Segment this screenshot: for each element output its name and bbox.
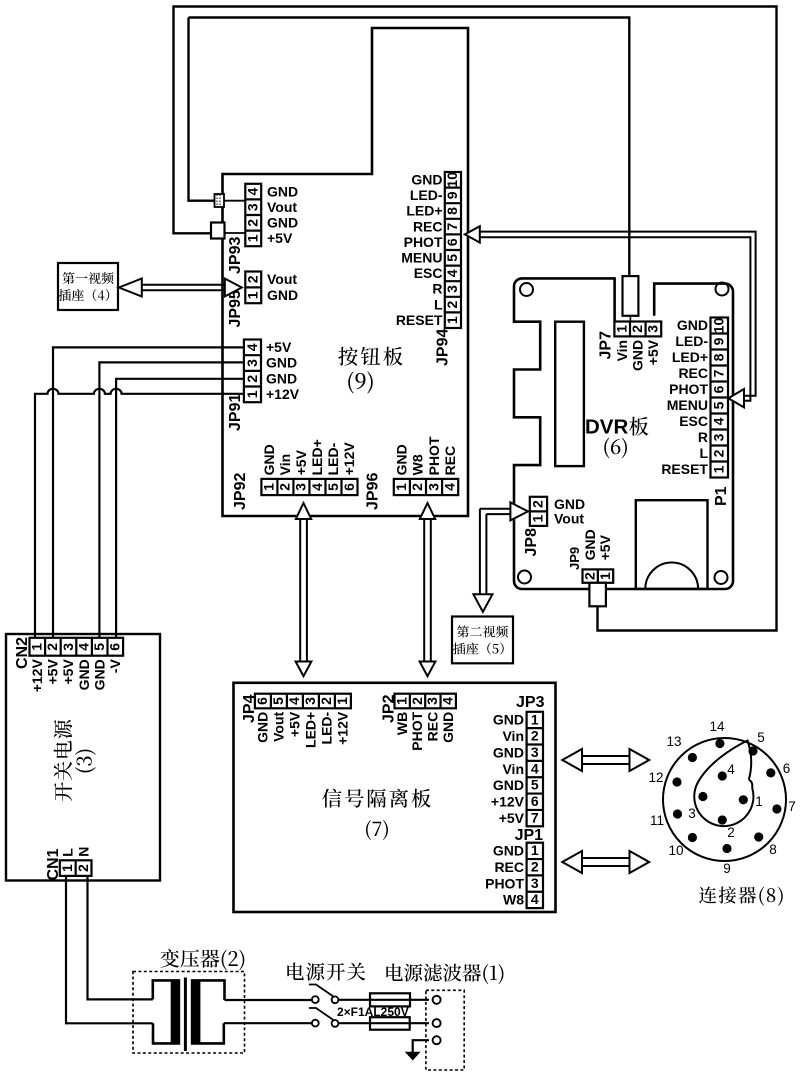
svg-text:4: 4 (245, 187, 261, 195)
connector JP95 (227, 271, 298, 327)
svg-text:Vin: Vin (277, 454, 293, 476)
svg-text:3: 3 (444, 285, 460, 293)
label 变压器(2) (transformer) (160, 949, 244, 970)
svg-text:8: 8 (444, 207, 460, 215)
svg-text:GND: GND (630, 340, 646, 371)
svg-text:JP91: JP91 (227, 394, 244, 431)
svg-text:GND: GND (267, 215, 298, 231)
svg-text:2: 2 (245, 219, 261, 227)
svg-text:+5V: +5V (60, 659, 76, 685)
second video socket (5) box (452, 617, 513, 664)
DVR board (6) outline (514, 278, 733, 589)
connector P1 (661, 317, 730, 506)
svg-text:4: 4 (442, 483, 458, 491)
svg-text:2: 2 (277, 483, 293, 491)
svg-text:6: 6 (444, 238, 460, 246)
wire JP91 pin4 to CN2 pin2 (53, 347, 246, 638)
svg-text:Vin: Vin (502, 728, 524, 744)
connector pin 7 (772, 804, 781, 813)
connector JP7 (598, 322, 662, 372)
svg-text:9: 9 (444, 191, 460, 199)
label (6) (604, 438, 627, 459)
svg-text:MENU: MENU (667, 397, 708, 413)
svg-text:REC: REC (413, 218, 443, 234)
svg-text:GND: GND (76, 659, 92, 690)
svg-text:Vin: Vin (502, 761, 524, 777)
svg-text:+12V: +12V (335, 711, 351, 745)
svg-text:2×F1AL250V: 2×F1AL250V (337, 1005, 409, 1019)
svg-text:4: 4 (711, 417, 727, 425)
double arrow: JP94 REC to P1 PHOT/MENU (465, 226, 756, 407)
svg-text:7: 7 (444, 222, 460, 230)
svg-text:5: 5 (711, 401, 727, 409)
svg-text:LED+: LED+ (303, 712, 319, 748)
plug at JP9 (589, 583, 606, 607)
svg-text:JP92: JP92 (232, 473, 249, 510)
svg-text:Vout: Vout (271, 711, 287, 741)
connector pin 11 (673, 809, 682, 818)
transformer (2) (133, 972, 245, 1054)
label (9) (348, 371, 372, 393)
connector pin 1 (739, 795, 748, 804)
svg-text:+5V: +5V (597, 534, 613, 560)
svg-text:GND: GND (411, 172, 442, 188)
svg-text:2: 2 (75, 864, 91, 872)
filter terminal 2 (433, 1019, 441, 1027)
svg-text:L: L (699, 445, 708, 461)
DVR module lens arc (645, 563, 698, 589)
svg-text:+5V: +5V (267, 230, 293, 246)
svg-text:3: 3 (244, 359, 260, 367)
svg-text:2: 2 (629, 325, 645, 333)
svg-text:GND: GND (582, 529, 598, 560)
connector pin 2 (718, 815, 727, 824)
svg-text:1: 1 (597, 572, 613, 580)
connector CN1 (45, 847, 92, 881)
power filter (1) dashed box (426, 990, 464, 1070)
svg-text:PHOT: PHOT (426, 436, 442, 475)
svg-text:5: 5 (531, 777, 539, 793)
connector JP94 (396, 172, 461, 367)
svg-text:Vout: Vout (267, 199, 297, 215)
svg-text:11: 11 (650, 813, 664, 828)
svg-text:PHOT: PHOT (669, 381, 708, 397)
svg-text:1: 1 (245, 234, 261, 242)
svg-text:LED-: LED- (319, 711, 335, 744)
connector pin 12 (672, 777, 681, 786)
wire JP91 pin2 to CN2 pin6 (116, 379, 246, 638)
connector pin 4 (718, 771, 727, 780)
wire A: JP93 plug to JP9 plug loop (174, 7, 777, 631)
svg-text:L: L (434, 296, 443, 312)
connector JP92 (232, 439, 358, 510)
svg-text:2: 2 (318, 697, 334, 705)
svg-text:8: 8 (711, 353, 727, 361)
svg-text:W8: W8 (503, 892, 524, 908)
svg-text:5: 5 (444, 254, 460, 262)
svg-text:CN2: CN2 (14, 637, 31, 669)
svg-text:6: 6 (531, 793, 539, 809)
svg-text:-V: -V (107, 659, 123, 674)
svg-text:MENU: MENU (401, 250, 442, 266)
svg-text:LED+: LED+ (309, 439, 325, 475)
svg-text:REC: REC (678, 365, 708, 381)
svg-text:GND: GND (677, 317, 708, 333)
svg-text:+5V: +5V (287, 711, 303, 737)
svg-text:GND: GND (267, 183, 298, 199)
svg-text:1: 1 (29, 643, 45, 651)
svg-text:14: 14 (709, 719, 725, 734)
svg-text:7: 7 (788, 799, 796, 814)
svg-text:4: 4 (440, 697, 456, 705)
svg-text:1: 1 (530, 514, 546, 522)
double arrow: JP96 to JP2 (420, 503, 436, 676)
first video socket (4) box (58, 263, 118, 310)
svg-text:RESET: RESET (661, 461, 708, 477)
transformer dashed box (133, 972, 245, 1054)
svg-text:1: 1 (261, 483, 277, 491)
svg-text:+12V: +12V (29, 659, 45, 693)
svg-text:+5V: +5V (499, 810, 525, 826)
svg-text:GND: GND (394, 444, 410, 475)
svg-text:+12V: +12V (491, 793, 525, 809)
svg-text:6: 6 (341, 483, 357, 491)
fuse F1 bottom (370, 1017, 410, 1029)
label 插座（4） (59, 289, 110, 301)
label 第二视频 (457, 626, 508, 638)
svg-text:JP2: JP2 (381, 694, 398, 723)
svg-text:2: 2 (409, 483, 425, 491)
label 连接器(8) (connector) (699, 886, 783, 906)
svg-text:3: 3 (531, 744, 539, 760)
svg-text:4: 4 (531, 760, 539, 776)
svg-text:GND: GND (493, 777, 524, 793)
svg-text:1: 1 (244, 390, 260, 398)
connector JP2 (381, 694, 456, 751)
button board (9) outline (223, 28, 469, 516)
svg-text:13: 13 (666, 734, 681, 749)
svg-text:1: 1 (614, 325, 630, 333)
connector JP91 (227, 339, 300, 431)
svg-text:4: 4 (727, 762, 735, 777)
svg-text:10: 10 (444, 172, 460, 188)
svg-text:+12V: +12V (266, 386, 300, 402)
connector (8) shell (663, 738, 786, 861)
svg-text:ESC: ESC (414, 265, 443, 281)
label 插座（5） (453, 642, 504, 654)
svg-text:2: 2 (531, 859, 539, 875)
svg-text:1: 1 (444, 316, 460, 324)
svg-text:GND: GND (91, 659, 107, 690)
wire B segment: left drop to JP93 plug1 (189, 18, 215, 201)
svg-text:10: 10 (711, 318, 727, 334)
double arrow: JP92 to JP4 (296, 503, 312, 676)
svg-text:2: 2 (727, 825, 735, 840)
connector JP8 (523, 496, 585, 557)
svg-text:4: 4 (244, 343, 260, 351)
svg-text:GND: GND (266, 355, 297, 371)
svg-text:P1: P1 (713, 486, 730, 506)
svg-text:1: 1 (393, 483, 409, 491)
svg-text:6: 6 (107, 643, 123, 651)
svg-text:JP8: JP8 (523, 528, 540, 557)
svg-text:JP3: JP3 (516, 694, 545, 711)
svg-text:REC: REC (425, 712, 441, 742)
filter terminal 1 (433, 996, 441, 1004)
svg-text:GND: GND (493, 744, 524, 760)
svg-text:PHOT: PHOT (485, 875, 524, 891)
fuse F1 top (370, 993, 410, 1006)
svg-text:4: 4 (444, 269, 460, 277)
DVR mounting hole bottom-right (715, 571, 728, 584)
svg-text:N: N (75, 847, 91, 857)
svg-text:JP94: JP94 (435, 329, 452, 366)
plug at JP7 (623, 276, 639, 321)
connector (8) key slot (694, 741, 753, 827)
connector JP93 (227, 183, 298, 274)
svg-text:PHOT: PHOT (409, 711, 425, 750)
svg-text:7: 7 (531, 809, 539, 825)
connector JP1 (485, 842, 543, 908)
connector pin 10 (688, 833, 697, 842)
svg-text:GND: GND (261, 444, 277, 475)
DVR mounting hole bottom-left (518, 571, 531, 584)
svg-text:2: 2 (531, 728, 539, 744)
svg-text:3: 3 (688, 806, 696, 821)
DVR inner connector slot (555, 322, 584, 466)
double arrow head: into JP8 (480, 502, 528, 520)
plug at JP93 pin3 (hatched) (215, 194, 246, 207)
core (184, 978, 187, 1052)
svg-text:JP4: JP4 (241, 694, 258, 723)
label 信号隔离板 (signal isolation board) (322, 789, 431, 808)
svg-text:GND: GND (267, 287, 298, 303)
primary winding (153, 980, 179, 1043)
svg-text:JP7: JP7 (598, 331, 615, 360)
svg-text:ESC: ESC (679, 413, 708, 429)
svg-text:4: 4 (75, 643, 91, 651)
wire CN1 pin1 to transformer bottom (66, 876, 153, 1023)
ground symbol (406, 1052, 420, 1060)
connector pin 13 (688, 753, 697, 762)
label 第一视频 (62, 272, 113, 284)
svg-text:5: 5 (91, 643, 107, 651)
svg-text:+5V: +5V (645, 339, 661, 365)
svg-text:RESET: RESET (396, 312, 443, 328)
svg-text:1: 1 (245, 291, 261, 299)
svg-text:JP95: JP95 (227, 290, 244, 327)
connector pin 8 (754, 832, 763, 841)
svg-text:4: 4 (286, 697, 302, 705)
wire switch to filter via fuse F1 bottom (338, 1022, 429, 1024)
svg-text:1: 1 (334, 697, 350, 705)
svg-text:2: 2 (582, 572, 598, 580)
filter terminal 3 (433, 1036, 441, 1044)
signal isolation board (7) outline (234, 683, 556, 912)
svg-text:JP9: JP9 (567, 547, 582, 570)
svg-text:LED-: LED- (325, 442, 341, 475)
DVR camera module (636, 500, 708, 589)
label 按钮板 (button board) (338, 347, 402, 366)
svg-text:REC: REC (442, 446, 458, 476)
DVR mounting hole top-right (716, 283, 729, 296)
connector CN2 (14, 637, 123, 692)
DVR mounting hole top-left (520, 283, 533, 296)
svg-text:12: 12 (648, 770, 663, 785)
svg-text:PHOT: PHOT (404, 234, 443, 250)
svg-text:LED-: LED- (410, 187, 443, 203)
label 电源滤波器(1) (power filter) (386, 964, 503, 985)
svg-text:1: 1 (711, 465, 727, 473)
svg-text:3: 3 (293, 483, 309, 491)
svg-text:7: 7 (711, 369, 727, 377)
svg-text:6: 6 (783, 761, 791, 776)
power switch S1 (309, 985, 339, 1027)
svg-text:1: 1 (755, 794, 763, 809)
svg-text:JP1: JP1 (515, 827, 544, 844)
svg-text:4: 4 (531, 891, 539, 907)
plug at JP93 pin1 (211, 223, 245, 239)
svg-text:JP96: JP96 (365, 473, 382, 510)
svg-text:Vout: Vout (554, 510, 584, 526)
svg-text:2: 2 (245, 275, 261, 283)
svg-text:2: 2 (409, 697, 425, 705)
connector JP96 (365, 436, 459, 510)
wire JP91 pin3 to CN2 pin5 (99, 362, 246, 638)
double arrow: JP1 to connector (8) (562, 851, 649, 873)
label 电源开关 (power switch) (287, 963, 365, 981)
label 板 of DVR板 (629, 417, 648, 436)
svg-text:3: 3 (245, 203, 261, 211)
svg-text:GND: GND (266, 370, 297, 386)
double arrow: down to second video socket (5) (473, 509, 492, 612)
wire filter terminal 3 to ground (413, 1040, 429, 1052)
svg-text:R: R (698, 429, 708, 445)
secondary winding (192, 980, 224, 1043)
svg-text:9: 9 (711, 337, 727, 345)
svg-text:3: 3 (425, 483, 441, 491)
svg-text:8: 8 (769, 842, 777, 857)
svg-text:5: 5 (325, 483, 341, 491)
svg-text:+5V: +5V (266, 339, 292, 355)
connector pin 14 (715, 739, 724, 748)
svg-text:4: 4 (309, 483, 325, 491)
wire CN1 pin2 to transformer top (88, 876, 153, 999)
label (3) (75, 750, 96, 773)
svg-text:GND: GND (493, 712, 524, 728)
double arrow: first video socket to JP95 (119, 279, 242, 297)
svg-text:LED+: LED+ (406, 203, 442, 219)
wire transformer to switch top (225, 999, 312, 1001)
connector JP9 (567, 529, 613, 583)
connector (8) (648, 719, 795, 876)
svg-text:1: 1 (531, 842, 539, 858)
svg-text:9: 9 (723, 861, 731, 876)
wire B segment: top run to JP7 plug (189, 18, 630, 277)
wire transformer to switch bottom (224, 1022, 312, 1024)
svg-text:2: 2 (711, 449, 727, 457)
svg-text:5: 5 (757, 730, 765, 745)
svg-text:DVR: DVR (585, 416, 628, 439)
label 开关电源 (switching PSU) (54, 720, 72, 801)
wire JP91 pin1 to CN2 pin1 with hops (35, 389, 246, 638)
svg-text:5: 5 (270, 697, 286, 705)
svg-text:Vin: Vin (614, 340, 630, 362)
svg-text:+12V: +12V (341, 442, 357, 476)
svg-text:2: 2 (530, 500, 546, 508)
switching power supply (3) box (6, 634, 160, 881)
svg-text:1: 1 (531, 711, 539, 727)
svg-text:LED+: LED+ (672, 349, 708, 365)
svg-text:LED-: LED- (675, 333, 708, 349)
svg-text:+5V: +5V (293, 449, 309, 475)
svg-text:3: 3 (302, 697, 318, 705)
svg-text:GND: GND (440, 712, 456, 743)
svg-text:3: 3 (645, 325, 661, 333)
svg-text:W8: W8 (410, 454, 426, 475)
wire switch to filter via fuse F1 top (338, 999, 429, 1001)
svg-text:R: R (432, 281, 442, 297)
connector pin 3 (698, 792, 707, 801)
svg-text:2: 2 (44, 643, 60, 651)
svg-text:+5V: +5V (45, 659, 61, 685)
svg-text:6: 6 (711, 385, 727, 393)
svg-text:3: 3 (531, 875, 539, 891)
connector pin 6 (766, 768, 775, 777)
label (7) (366, 820, 388, 840)
connector pin 5 (748, 746, 757, 755)
svg-text:3: 3 (424, 697, 440, 705)
svg-text:2: 2 (244, 375, 260, 383)
connector pin 9 (722, 844, 731, 853)
double arrow: JP3 to connector (8) (562, 749, 649, 771)
svg-text:JP93: JP93 (227, 237, 244, 274)
svg-text:REC: REC (494, 859, 524, 875)
connector JP3 (491, 711, 543, 826)
svg-text:CN1: CN1 (45, 848, 62, 880)
svg-text:3: 3 (711, 433, 727, 441)
svg-text:2: 2 (444, 300, 460, 308)
connector JP4 (241, 694, 351, 748)
svg-text:10: 10 (668, 843, 683, 858)
svg-text:Vout: Vout (267, 271, 297, 287)
svg-text:3: 3 (60, 643, 76, 651)
svg-text:GND: GND (493, 843, 524, 859)
